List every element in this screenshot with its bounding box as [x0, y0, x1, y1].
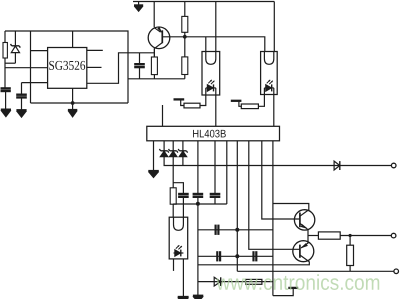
capacitor C5: [178, 193, 189, 195]
transistor Q1: [148, 2, 170, 58]
wire Q1 base y36.8: [162, 37, 264, 52]
trimmer R10: [231, 95, 265, 109]
wire pin5 down: [197, 141, 199, 194]
optocoupler U2 box: [202, 52, 220, 96]
node dot: [235, 254, 239, 258]
wire emitter branch to R5: [308, 235, 318, 237]
terminal: [391, 233, 396, 238]
capacitor C1: [1, 88, 11, 91]
ground top: [134, 2, 143, 12]
ground: [193, 296, 203, 299]
terminal: [394, 269, 399, 274]
diode D3: [214, 277, 221, 286]
wire zener to left: [5, 62, 15, 64]
node dot: [235, 228, 239, 232]
resistor R6: [349, 236, 351, 246]
wire opto1 to IC: [215, 95, 217, 126]
transistor Q3: [293, 241, 314, 262]
watermark www.cntronics.com: [216, 274, 379, 290]
zener diode Z1 on pin2: [159, 141, 168, 166]
wire vertical bus x30.5: [30, 31, 32, 103]
node dot: [349, 234, 352, 237]
wire pin6 down: [214, 141, 216, 194]
transistor Q2: [294, 210, 314, 230]
node dot base/divider: [183, 35, 187, 39]
wire bottom pin: [72, 88, 74, 103]
wire Q2 collector: [273, 204, 309, 211]
resistor R8 left: [4, 31, 6, 43]
ground: [148, 171, 159, 177]
resistor R1: [153, 48, 155, 57]
optocoupler U5 box bottom: [169, 217, 188, 259]
bar electrode: [288, 287, 298, 289]
wire pin10 to Q2 base: [262, 141, 300, 219]
zener diode ZD1: [11, 31, 21, 63]
terminal: [391, 163, 396, 168]
resistor R4 on pin3: [170, 188, 176, 204]
capacitor C2: [21, 83, 23, 95]
ground: [16, 110, 26, 117]
wire L to C5: [173, 183, 183, 194]
resistor R3: [184, 37, 186, 57]
diode D2: [334, 161, 340, 170]
wire to terminal: [340, 235, 391, 237]
wire opto2 to IC: [273, 95, 275, 127]
capacitor C9: [254, 251, 257, 261]
ground: [178, 297, 189, 299]
capacitor C8: [217, 251, 220, 261]
wire pin2 left: [5, 67, 48, 69]
wire right leg to ground: [182, 259, 184, 297]
capacitor C3: [134, 53, 145, 79]
wire y204: [173, 203, 227, 205]
trimmer R9: [174, 95, 206, 108]
wire row1 y229.8: [198, 229, 273, 231]
wire row2 y256.3: [198, 255, 273, 257]
wire bottom-bar link: [273, 288, 293, 296]
wire pin3 left: [22, 82, 49, 84]
wire pin9 to Q3 base: [249, 141, 300, 250]
wire bottom long y271.3: [237, 270, 394, 272]
wire pin7 down: [226, 141, 228, 204]
wire opto1 left lead top: [205, 37, 207, 52]
zener diode Z3 on pin4: [178, 141, 187, 166]
wire pin1 left: [31, 50, 49, 52]
optocoupler U3 box: [261, 52, 278, 95]
ground: [1, 110, 11, 117]
resistor R7: [246, 279, 262, 284]
wire stub below box: [173, 259, 175, 271]
IC U1 SG3526 box: [48, 48, 87, 89]
IC U4 HL403B box: [147, 126, 280, 141]
zener diode Z2 on pin3: [169, 141, 178, 188]
wire pin8 down: [236, 141, 238, 271]
wire right pin 3: [87, 53, 155, 84]
wire pin11 down: [272, 141, 274, 296]
wire top-left rail: [5, 31, 128, 103]
capacitor C6: [210, 194, 221, 197]
wire top rail2 y2: [133, 1, 274, 3]
capacitor C7: [216, 225, 219, 235]
node junction dot: [71, 101, 75, 105]
capacitor C4: [193, 194, 204, 197]
node dot: [196, 202, 200, 206]
wire Q2 emitter down: [307, 230, 309, 244]
label HL403B: [193, 130, 226, 138]
wire ground bus y103: [31, 102, 129, 104]
wire long y165.5: [164, 165, 392, 167]
resistor R5: [318, 232, 340, 239]
wire rail2 to opto1: [215, 2, 217, 52]
wire rail2 end to opto2: [273, 2, 275, 52]
resistor R2: [184, 2, 186, 17]
wire top pin: [72, 31, 74, 48]
wire right pin stub 1: [87, 49, 103, 51]
wire bus x197.9 down: [197, 197, 199, 296]
wire diode row y281.6: [198, 281, 273, 283]
wire resistor-bottom rail y78.8: [128, 78, 185, 80]
wire Q3 collector to row: [198, 261, 309, 264]
label SG3526: [49, 61, 85, 70]
wire pin1 to ground: [153, 141, 155, 171]
ground: [68, 103, 77, 117]
wire stub pin top: [162, 105, 164, 126]
wire right pin stub 2: [87, 66, 102, 68]
